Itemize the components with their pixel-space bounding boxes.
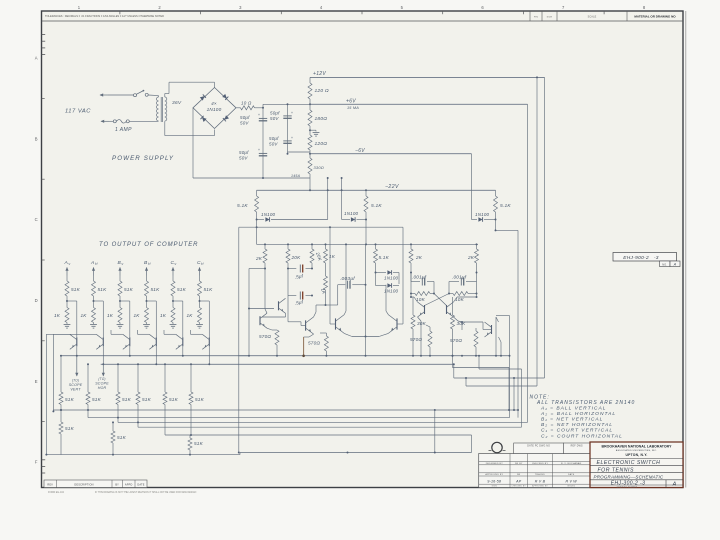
svg-text:5.1K: 5.1K — [379, 255, 390, 260]
bottom long bus — [46, 454, 240, 456]
wire T3 emitter down (discolored) — [309, 334, 314, 337]
resistor 10K (cell2 left) — [411, 293, 415, 295]
resistor 180 ohm — [309, 104, 311, 110]
svg-text:1K: 1K — [187, 313, 194, 318]
wire T4 collector up — [344, 311, 346, 315]
wire node CH to base — [200, 300, 210, 302]
svg-text:F: F — [35, 460, 38, 465]
resistor 570 (cell1 left) — [275, 330, 279, 345]
wire node Av to base — [67, 300, 77, 302]
bridge diode bottom-left — [200, 116, 206, 122]
return bus y410 — [53, 409, 518, 411]
svg-text:5.1K: 5.1K — [371, 203, 382, 209]
svg-text:50μf: 50μf — [239, 150, 249, 155]
svg-text:1N100: 1N100 — [261, 212, 276, 217]
return bus y417.6 — [88, 417, 510, 419]
wire node AH to 1K — [93, 301, 95, 308]
wire node Cv to 1K — [172, 301, 174, 308]
wire node BH to 1K — [146, 301, 148, 308]
svg-text:C: C — [35, 217, 38, 222]
resistor 51K (BH pull) — [145, 281, 149, 296]
svg-text:570Ω: 570Ω — [450, 338, 462, 343]
svg-text:(TO): (TO) — [72, 379, 79, 383]
capacitor .001uf (cell2 right) — [449, 281, 459, 283]
wire bus to lower 51K #4 — [137, 364, 139, 392]
svg-text:+: + — [258, 113, 260, 117]
wire lower 51K #6 to bus — [190, 405, 192, 436]
svg-text:51K: 51K — [194, 441, 204, 446]
-22V rail dots — [309, 189, 311, 191]
wire 20K bottom to T3 base chain — [287, 269, 289, 296]
svg-text:B₂ = NET HORIZONTAL: B₂ = NET HORIZONTAL — [541, 422, 613, 428]
resistor 5.1K (left feed) — [256, 190, 258, 196]
svg-text:.003μf: .003μf — [340, 276, 355, 282]
svg-text:+: + — [291, 111, 293, 115]
resistor 51K (CH pull) — [198, 281, 202, 296]
transistor Q3 (Bv) — [129, 337, 131, 346]
+12V rail — [310, 76, 545, 78]
transistor T2 (cell1 output left) — [259, 316, 261, 325]
transistor Q4 (BH) — [155, 337, 157, 346]
wire Q1 collector to left rail — [46, 333, 69, 335]
diode 1N100 (cell2 lower) — [375, 273, 377, 286]
wire node Cv to base — [173, 300, 183, 302]
node Av — [66, 300, 68, 302]
resistor 1K (CH) — [198, 308, 202, 323]
svg-text:APPROVED BY: APPROVED BY — [532, 485, 548, 488]
input terminal AH arrow — [93, 268, 95, 276]
zone tick marks (left) — [42, 97, 45, 99]
return bus y427.2 — [138, 426, 522, 428]
AC input line (hot) — [100, 94, 108, 96]
wire node Bv to base — [120, 300, 130, 302]
wire T3 collector up — [314, 312, 316, 317]
cross-coupling wires (cell2) — [434, 294, 447, 306]
resistor 10K (cell2 right) — [449, 293, 453, 295]
ground stub mid-chain — [310, 129, 316, 131]
wire bridge negative to common rail — [192, 108, 194, 178]
switch S1 — [134, 94, 137, 97]
wire secondary bottom to bridge — [164, 121, 166, 135]
svg-text:−22V: −22V — [385, 184, 399, 190]
svg-text:TO OUTPUT OF COMPUTER: TO OUTPUT OF COMPUTER — [99, 242, 198, 248]
wire pair emitters join — [344, 333, 352, 336]
resistor 30K (cell2 right) — [452, 297, 454, 315]
resistor 51K (far left bottom) — [60, 410, 62, 422]
transistor T7 (cell2 right) — [446, 305, 448, 314]
svg-text:(TO): (TO) — [98, 377, 105, 381]
svg-text:v: v — [69, 262, 71, 266]
svg-text:FIN: FIN — [534, 16, 538, 18]
scope bus 1 (vertical) — [60, 355, 249, 357]
wire input CH to resistor — [199, 276, 201, 282]
svg-text:H: H — [148, 262, 151, 266]
resistor 2K (cell2 right) — [476, 244, 478, 249]
wire Q2 emitter to bus — [102, 346, 104, 364]
capacitor 50uF/50V (C3) — [259, 152, 267, 154]
svg-text:51K: 51K — [124, 287, 134, 292]
svg-text:51K: 51K — [169, 397, 179, 402]
svg-text:ALL TRANSISTORS ARE 2N140: ALL TRANSISTORS ARE 2N140 — [536, 400, 635, 406]
wire 10ohm to filter node — [255, 107, 264, 109]
wire Q4 collector stub — [138, 333, 150, 335]
svg-text:DATE: DATE — [137, 483, 144, 486]
set line (long horizontal) — [239, 226, 403, 228]
label 20K slant cell1 — [315, 251, 323, 262]
resistor 51K (Av pull) — [65, 281, 69, 296]
wire lower 51K #3 to bus — [117, 405, 119, 423]
svg-text:CHECKED BY: CHECKED BY — [512, 486, 527, 488]
bus2 cascade — [453, 364, 455, 378]
zone tick marks (top) — [119, 11, 121, 14]
top strip boxes — [529, 11, 531, 21]
filter cap column 2 wire — [287, 104, 289, 154]
resistor 51K (Cv pull) — [171, 281, 175, 296]
svg-text:A₁ = BALL VERTICAL: A₁ = BALL VERTICAL — [540, 405, 606, 411]
svg-text:MATERIAL OR DRAWING NO: MATERIAL OR DRAWING NO — [634, 15, 676, 19]
resistor 2K (cell1) — [264, 244, 266, 249]
wire bus to lower 51K #5 — [164, 364, 166, 392]
wire T2 collector — [265, 309, 267, 313]
bridge diode top-right — [222, 94, 228, 100]
svg-text:51K: 51K — [142, 397, 152, 402]
svg-text:SCOPE: SCOPE — [95, 382, 109, 386]
ground (Cv) — [172, 323, 174, 325]
title block red border box — [590, 442, 683, 488]
svg-text:C₁ = COURT VERTICAL: C₁ = COURT VERTICAL — [541, 428, 613, 434]
svg-text:NO.: NO. — [662, 263, 667, 266]
junction dots PSU — [262, 107, 264, 109]
wire Q6 emitter to bus — [208, 346, 210, 364]
resistor 120 ohm (top) — [309, 77, 311, 83]
svg-text:570Ω: 570Ω — [259, 334, 271, 339]
svg-text:9-16-58: 9-16-58 — [487, 480, 501, 484]
transistor Q6 (CH) — [208, 337, 210, 346]
transistor Q5 (Cv) — [182, 337, 184, 346]
wire T6 collector — [414, 297, 418, 302]
wire T8 emitter down — [499, 337, 502, 342]
wire cell1 left boundary — [249, 268, 265, 270]
drawing number box EHJ-900-2 -3 — [613, 253, 677, 262]
svg-text:10K: 10K — [416, 297, 426, 302]
diode 1N100 (cell2 upper) — [375, 268, 377, 273]
svg-text:1K: 1K — [160, 313, 167, 318]
svg-text:30K: 30K — [417, 321, 427, 326]
input terminal Av arrow — [66, 268, 68, 276]
svg-text:R V B: R V B — [535, 480, 546, 484]
label 1K lower slant — [320, 288, 327, 296]
svg-text:SIGN: SIGN — [492, 486, 498, 488]
svg-text:1N100: 1N100 — [207, 107, 222, 112]
svg-text:50V: 50V — [240, 121, 249, 126]
svg-text:DATE: DATE — [568, 473, 575, 476]
svg-text:+: + — [291, 136, 293, 140]
svg-text:51K: 51K — [195, 397, 205, 402]
svg-text:DR: DR — [517, 474, 521, 476]
svg-text:B₁ = NET VERTICAL: B₁ = NET VERTICAL — [541, 417, 603, 423]
svg-text:117 VAC: 117 VAC — [65, 109, 91, 115]
svg-text:20K: 20K — [291, 255, 302, 260]
resistor 5.1K (cell2) — [375, 244, 377, 249]
wire node Av to 1K — [66, 301, 68, 308]
svg-text:1N100: 1N100 — [384, 276, 399, 281]
node AH — [93, 300, 95, 302]
svg-text:570Ω: 570Ω — [308, 341, 320, 346]
wire Q3 collector stub — [111, 333, 123, 335]
wire bus to lower 51K #6 — [190, 364, 192, 392]
resistor 51K (bottom mid1) — [112, 422, 114, 431]
svg-text:APPROVED BY: APPROVED BY — [485, 473, 503, 476]
title block column lines (left part) — [509, 454, 511, 488]
transformer core — [160, 97, 162, 122]
return bus y422.4 — [118, 421, 528, 423]
resistor 51K (Bv pull) — [118, 281, 122, 296]
resistor 570 (cell1 right) — [320, 332, 326, 334]
top header strip line — [42, 20, 684, 22]
resistor 10 ohm — [241, 106, 255, 110]
svg-text:10 Ω: 10 Ω — [241, 101, 252, 106]
wire left-feed node down — [256, 220, 258, 228]
svg-text:TRACED: TRACED — [535, 473, 545, 476]
svg-text:+12V: +12V — [313, 71, 326, 77]
wire lower 51K #4 to bus — [137, 405, 139, 428]
svg-text:H: H — [201, 262, 204, 266]
common rail drop to -22V — [309, 178, 311, 190]
resistor 51K (bottom mid2) — [189, 435, 191, 438]
fuse F1 1 AMP — [113, 120, 116, 123]
resistor 1K (AH) — [92, 308, 96, 323]
wire bus to lower 51K #1 — [60, 356, 62, 392]
svg-text:DESCRIPTION: DESCRIPTION — [74, 483, 93, 486]
resistor 570 (cell2 left) — [428, 331, 432, 347]
resistor 51K lower #6 — [189, 392, 193, 405]
label .5uf lower — [294, 299, 304, 306]
transistor T5 (pair right) — [396, 318, 398, 329]
transformer T1 primary — [158, 96, 160, 97]
svg-text:1K: 1K — [54, 313, 61, 318]
resistor 120 ohm (lower) — [309, 130, 311, 135]
node CH — [199, 300, 201, 302]
cell ground bus dots — [248, 355, 250, 357]
svg-text:DR BY: DR BY — [515, 463, 523, 465]
svg-text:APPD: APPD — [125, 483, 133, 486]
wire mid vertical down to pair — [365, 285, 367, 330]
wire Q5 emitter to bus — [182, 346, 184, 356]
svg-text:VERT: VERT — [70, 388, 81, 392]
wire right feed node cascade — [495, 220, 497, 231]
revision sub-boxes under drawing number box — [660, 261, 671, 267]
wire T5 base stub — [397, 323, 403, 325]
svg-text:ASSOCIATED UNIVERSITIES, INC.: ASSOCIATED UNIVERSITIES, INC. — [616, 449, 657, 452]
svg-text:PROGRAMMING—SCHEMATIC: PROGRAMMING—SCHEMATIC — [594, 474, 664, 479]
svg-text:5.1K: 5.1K — [500, 203, 511, 209]
svg-text:120 Ω: 120 Ω — [315, 88, 329, 94]
svg-text:50V: 50V — [269, 142, 278, 147]
wire Q1 emitter to bus — [76, 346, 78, 356]
wire Q6 collector stub — [191, 333, 203, 335]
svg-text:51K: 51K — [71, 287, 81, 292]
input terminal Bv arrow — [119, 268, 121, 276]
+6V rail corner drop — [527, 104, 529, 422]
svg-text:SCOPE: SCOPE — [69, 383, 83, 387]
svg-text:A: A — [673, 263, 677, 267]
wire secondary top to bridge — [164, 94, 166, 98]
wire T5 collector up — [386, 311, 388, 315]
wire node down to cell rail — [256, 227, 258, 244]
svg-text:50μf: 50μf — [270, 111, 280, 116]
svg-text:570Ω: 570Ω — [410, 337, 422, 342]
title block row lines (left part) — [479, 461, 590, 463]
resistor 2K (cell2 left) — [410, 244, 412, 249]
svg-text:A: A — [672, 481, 677, 487]
svg-text:IF THIS DRAWING IS NOT THE LAT: IF THIS DRAWING IS NOT THE LATEST REVISI… — [95, 491, 197, 494]
left boundary long vertical — [238, 227, 240, 452]
svg-text:15 MA: 15 MA — [347, 106, 359, 110]
svg-text:A: A — [35, 56, 38, 61]
svg-text:51K: 51K — [122, 397, 132, 402]
svg-text:120Ω: 120Ω — [315, 141, 328, 147]
cascade step 2 — [478, 356, 480, 369]
AC input line (neutral) — [101, 120, 109, 122]
wire T1 emitter down — [285, 313, 287, 317]
svg-text:DRAWING NUMBER: DRAWING NUMBER — [617, 485, 638, 488]
wire Q4 emitter to bus — [155, 346, 157, 364]
scope bus 2 (horizontal) — [101, 363, 454, 365]
svg-text:51K: 51K — [92, 397, 102, 402]
wire 2K bottom to T2 collector — [264, 269, 266, 310]
resistor 20K (cell1) — [287, 244, 289, 249]
resistor 51K lower #4 — [136, 392, 140, 405]
svg-text:AP: AP — [515, 480, 522, 484]
resistor 1K (BH) — [145, 308, 149, 323]
resistor 30K (cell2 left) — [412, 297, 414, 315]
diode 1N100 (mid feed) — [342, 219, 350, 221]
svg-text:51K: 51K — [204, 287, 214, 292]
diode 1N100 (right feed) — [472, 219, 478, 221]
svg-text:2K: 2K — [255, 256, 263, 261]
wire Q3 emitter to bus — [129, 346, 131, 356]
svg-text:FOR TENNIS: FOR TENNIS — [598, 467, 634, 473]
wire lower 51K #1 to bus — [60, 405, 62, 411]
svg-text:A: A — [64, 260, 68, 266]
resistor 570 (cell2 right) — [474, 331, 478, 347]
title block red row lines — [590, 458, 683, 460]
wire mid feed down — [365, 220, 367, 245]
svg-text:2K: 2K — [467, 255, 475, 260]
svg-text:1N100: 1N100 — [475, 212, 490, 217]
wire T7 emitter down — [454, 317, 459, 321]
node Cv — [172, 300, 174, 302]
svg-text:51K: 51K — [151, 287, 161, 292]
cell ground bus — [239, 355, 510, 357]
wire bus to lower 51K #2 — [87, 364, 89, 392]
svg-text:E: E — [35, 379, 38, 384]
arrow to scope vert — [76, 356, 78, 368]
wire node CH to 1K — [199, 301, 201, 308]
ground (AH) — [93, 323, 95, 325]
resistor 20K slant (cell1) — [311, 244, 313, 249]
svg-text:UPTON, N.Y.: UPTON, N.Y. — [625, 453, 647, 457]
svg-text:5.1K: 5.1K — [237, 203, 248, 209]
svg-text:v: v — [175, 262, 177, 266]
label .5uf upper — [294, 273, 304, 280]
svg-text:50V: 50V — [270, 116, 279, 121]
svg-text:R. V. BUCHANAN: R. V. BUCHANAN — [561, 462, 582, 465]
svg-text:FORM EG-102: FORM EG-102 — [48, 491, 65, 494]
vertical link x434.8 — [434, 410, 436, 453]
resistor 51K lower #3 — [116, 392, 120, 405]
input terminal BH arrow — [146, 268, 148, 276]
+12V rail corner drop (inner) — [536, 77, 538, 386]
capacitor .003uf — [326, 304, 338, 306]
svg-text:CHECKED BY: CHECKED BY — [532, 463, 549, 465]
svg-text:4×: 4× — [211, 101, 217, 106]
svg-text:C₂ = COURT HORIZONTAL: C₂ = COURT HORIZONTAL — [541, 433, 623, 439]
wire input Bv to resistor — [119, 276, 121, 282]
bridge rectifier 4x 1N100 diamond — [193, 88, 236, 129]
svg-text:50μf: 50μf — [240, 115, 250, 120]
wire input BH to resistor — [146, 276, 148, 282]
arrow to scope hor — [102, 364, 104, 368]
svg-text:1N100: 1N100 — [344, 211, 359, 216]
svg-text:SIZE: SIZE — [547, 16, 553, 18]
wire T2 emitter to 570 — [267, 328, 272, 330]
wire Q5 collector stub — [164, 333, 176, 335]
svg-text:H: H — [95, 262, 98, 266]
svg-text:.001μf: .001μf — [412, 275, 427, 280]
cascade step 4 — [452, 356, 454, 368]
wire pair tail down — [365, 337, 367, 356]
title block upper boxes — [514, 443, 564, 454]
svg-text:B: B — [35, 136, 38, 141]
resistor 1K (Av) — [65, 308, 69, 323]
svg-text:REF DWG: REF DWG — [571, 446, 583, 448]
cascade step 3 — [465, 378, 467, 386]
svg-text:DATE PC DWG NO: DATE PC DWG NO — [527, 445, 550, 448]
wire input AH to resistor — [93, 276, 95, 282]
svg-text:REV: REV — [47, 483, 53, 486]
svg-text:1K: 1K — [107, 313, 114, 318]
svg-text:2K: 2K — [415, 255, 423, 260]
svg-text:D: D — [35, 298, 38, 303]
common rail under power supply — [193, 177, 310, 179]
wire node AH to base — [94, 300, 104, 302]
left edge wire b — [52, 334, 54, 411]
transistor T6 (cell2 left) — [424, 305, 426, 314]
capacitor 50uF/50V (C4) — [283, 140, 291, 142]
svg-text:POWER SUPPLY: POWER SUPPLY — [112, 155, 174, 162]
border frame — [42, 11, 684, 488]
svg-text:BY: BY — [115, 483, 119, 486]
svg-text:BROOKHAVEN NATIONAL LABORATORY: BROOKHAVEN NATIONAL LABORATORY — [602, 444, 673, 448]
resistor 1K (Cv) — [171, 308, 175, 323]
svg-text:180Ω: 180Ω — [315, 116, 328, 122]
capacitor .5uf (lower) — [288, 295, 296, 297]
transistor T1 (cell1) — [278, 301, 280, 310]
ground (Av) — [66, 323, 68, 325]
node BH — [146, 300, 148, 302]
revision table — [44, 480, 147, 488]
resistor 1K lower (cell1) — [325, 266, 327, 276]
svg-text:+: + — [258, 148, 260, 152]
node Bv — [119, 300, 121, 302]
svg-text:v: v — [122, 262, 124, 266]
resistor 51K lower #2 — [86, 392, 90, 405]
input terminal CH arrow — [199, 268, 201, 276]
wire T3 base — [300, 322, 302, 326]
cell rail dots — [264, 243, 266, 245]
svg-text:50μf: 50μf — [269, 136, 279, 141]
